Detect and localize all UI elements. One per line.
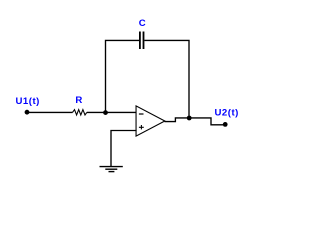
ground symbol bar 3	[109, 171, 115, 173]
input terminal dot	[25, 110, 30, 115]
svg-text:U2(t): U2(t)	[215, 108, 239, 119]
wire feedback left vertical and top-left horizontal	[106, 40, 140, 112]
svg-text:R: R	[75, 95, 82, 106]
ground symbol bar 1	[100, 166, 123, 168]
wire resistor to op-amp minus input	[87, 111, 137, 113]
wire op-amp output with jogs	[165, 118, 225, 125]
wire top-right horizontal and feedback right vertical	[144, 40, 189, 118]
op-amp plus input symbol	[139, 126, 144, 128]
node output junction	[187, 116, 192, 121]
svg-text:U1(t): U1(t)	[16, 96, 40, 107]
output terminal dot	[223, 122, 228, 127]
node input junction	[103, 110, 108, 115]
capacitor C left plate	[139, 32, 141, 50]
ground symbol bar 2	[105, 168, 117, 170]
op-amp minus input symbol	[139, 113, 144, 114]
resistor R	[73, 110, 87, 115]
wire input left segment	[27, 111, 73, 113]
capacitor C right plate	[143, 32, 145, 50]
wire ground branch to plus input	[111, 131, 137, 167]
op-amp U1 triangle	[136, 106, 165, 136]
svg-text:C: C	[139, 18, 146, 29]
